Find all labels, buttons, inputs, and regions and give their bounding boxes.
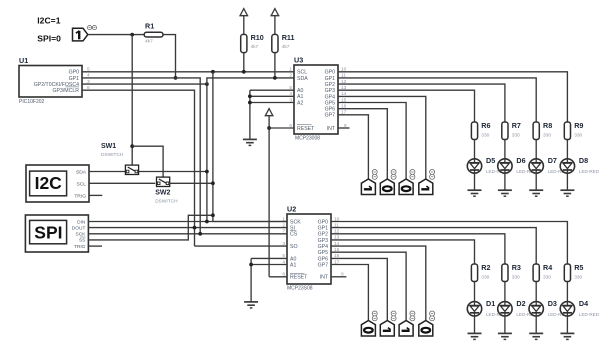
svg-text:D1: D1 xyxy=(486,299,495,308)
wire DOUT-SI row xyxy=(88,227,287,229)
resistor R3 xyxy=(502,263,521,281)
wire U3 RESET xyxy=(269,127,294,129)
ground U3 addr xyxy=(243,139,257,145)
svg-text:SW2: SW2 xyxy=(155,190,170,197)
wire R6 to D5 xyxy=(474,140,476,159)
svg-text:330: 330 xyxy=(543,275,551,281)
svg-text:TRIG: TRIG xyxy=(74,194,86,200)
wire I2C SCL to SW2 xyxy=(89,182,155,184)
svg-text:A1: A1 xyxy=(290,262,296,268)
node junction R11-SDA xyxy=(273,76,277,80)
svg-text:4k7: 4k7 xyxy=(145,38,153,44)
svg-text:1: 1 xyxy=(282,216,285,222)
node junction GP2-SDA xyxy=(205,82,209,86)
ground D2 xyxy=(498,333,512,339)
wire R9 to D8 xyxy=(566,140,568,159)
wire U3 GP6 to tag xyxy=(338,109,387,179)
wire R5 to D4 xyxy=(566,282,568,302)
svg-text:GP7: GP7 xyxy=(325,113,335,119)
wire U2 GP7 to tag xyxy=(331,265,368,321)
note I2C=1 xyxy=(37,15,60,25)
wire GP2 row xyxy=(82,83,207,85)
jumper tag value 1 xyxy=(73,26,97,41)
svg-text:4k7: 4k7 xyxy=(251,44,259,50)
svg-text:330: 330 xyxy=(481,133,489,139)
svg-text:R8: R8 xyxy=(543,121,552,130)
node junction SCL-vD xyxy=(211,70,215,74)
svg-text:330: 330 xyxy=(512,133,520,139)
wire SW2 to SCL vertical xyxy=(169,182,213,184)
svg-text:GP3: GP3 xyxy=(325,88,335,94)
wire I2C SDA to SW1 xyxy=(89,171,125,173)
IC U3 MCP23008 xyxy=(294,55,338,141)
svg-text:MCP23008: MCP23008 xyxy=(295,136,320,142)
wire VCC vertical xyxy=(268,116,270,277)
svg-text:INT: INT xyxy=(327,126,336,132)
switch SW1 DSWITCH xyxy=(101,143,139,175)
wire GP3 row xyxy=(82,90,195,246)
wire SCK-CS row xyxy=(88,233,287,235)
node junction U2 A1 xyxy=(249,263,253,267)
wire U2 GP1 to R4 xyxy=(331,228,536,264)
wire U3 INT stub xyxy=(338,127,350,129)
LED D3 LED-RED xyxy=(529,299,569,317)
wire R4 to D3 xyxy=(535,282,537,302)
svg-text:A2: A2 xyxy=(297,100,303,106)
LED D8 LED-RED xyxy=(560,156,600,174)
svg-text:DSWITCH: DSWITCH xyxy=(155,199,178,205)
IC U1 PIC10F202 xyxy=(19,56,82,105)
svg-text:R4: R4 xyxy=(543,263,552,272)
wire SW1 to SDA vertical xyxy=(139,171,207,173)
connector SPI box xyxy=(25,215,88,252)
wire U3 GP7 to tag xyxy=(338,115,368,179)
svg-text:DOUT: DOUT xyxy=(72,225,86,231)
jumper tag U2 GP6 value 1 xyxy=(380,311,396,336)
svg-text:D5: D5 xyxy=(486,156,495,165)
svg-text:U1: U1 xyxy=(19,56,28,65)
wire U3 A0 xyxy=(250,89,294,91)
ground D4 xyxy=(560,333,574,339)
pin numbers U1 xyxy=(87,67,90,91)
connector I2C box xyxy=(26,165,89,202)
wire GP1 row xyxy=(82,78,200,234)
resistor R4 xyxy=(533,263,552,281)
LED D7 LED-RED xyxy=(529,156,569,174)
svg-text:GP1: GP1 xyxy=(69,76,79,82)
wire U2 A0 xyxy=(251,257,287,259)
svg-text:R3: R3 xyxy=(512,263,521,272)
svg-text:D4: D4 xyxy=(579,299,588,308)
svg-text:SCK: SCK xyxy=(76,232,87,238)
wire U3 GP0 to R9 xyxy=(338,72,567,122)
jumper tag U3 GP4 value 1 xyxy=(419,170,435,195)
svg-text:SCL: SCL xyxy=(76,181,86,187)
wire U2 GP0 to R5 xyxy=(331,222,567,265)
wire DIN row xyxy=(88,221,287,223)
svg-text:D8: D8 xyxy=(579,156,588,165)
note SPI=0 xyxy=(37,34,61,44)
svg-text:GP0: GP0 xyxy=(69,70,79,76)
wire D2 to ground xyxy=(504,316,506,333)
jumper tag U3 GP7 value 1 xyxy=(361,170,377,195)
wire R3 to D2 xyxy=(504,282,506,302)
svg-text:I2C: I2C xyxy=(35,173,63,193)
wire R7 to D6 xyxy=(504,140,506,159)
pin numbers U2 xyxy=(282,216,344,277)
resistor R1 xyxy=(144,21,163,44)
wire U2 RESET xyxy=(269,276,287,278)
wire R10 to SCL xyxy=(243,53,245,72)
wire U2 GP6 to tag xyxy=(331,258,387,320)
LED D2 LED-RED xyxy=(498,299,538,317)
jumper tag U3 GP6 value 0 xyxy=(380,170,396,195)
wire U3 addr vertical xyxy=(249,90,251,139)
wire D5 to ground xyxy=(474,173,476,190)
svg-text:GP4: GP4 xyxy=(318,244,328,250)
LED D6 LED-RED xyxy=(498,156,538,174)
svg-text:330: 330 xyxy=(574,275,582,281)
svg-text:TRIG: TRIG xyxy=(74,244,86,250)
svg-text:D7: D7 xyxy=(548,156,557,165)
svg-text:330: 330 xyxy=(481,275,489,281)
resistor R10 xyxy=(241,33,264,52)
svg-text:A0: A0 xyxy=(290,256,296,262)
svg-text:I2C=1: I2C=1 xyxy=(37,15,60,25)
node junction U3 RESET xyxy=(267,126,271,130)
node junction SW1-SDA xyxy=(205,170,209,174)
wire U2 A1 xyxy=(251,264,287,266)
wire D6 to ground xyxy=(504,173,506,190)
node junction DIN-SDA xyxy=(205,220,209,224)
svg-text:R5: R5 xyxy=(574,263,583,272)
wire GP0-SCL row xyxy=(82,71,294,73)
power flag VCC R10 xyxy=(240,9,249,35)
wire U2 GP5 to tag xyxy=(331,252,406,320)
svg-text:DSWITCH: DSWITCH xyxy=(101,152,124,158)
pin numbers U3 xyxy=(289,67,347,129)
jumper tag U2 GP7 value 0 xyxy=(361,311,377,336)
wire D4 to ground xyxy=(566,316,568,333)
svg-text:R1: R1 xyxy=(145,21,154,30)
svg-text:2: 2 xyxy=(289,73,292,79)
svg-text:PIC10F202: PIC10F202 xyxy=(19,99,45,105)
wire U3 GP1 to R8 xyxy=(338,78,536,122)
wire R2 to D1 xyxy=(474,282,476,302)
svg-text:R10: R10 xyxy=(251,33,264,42)
svg-text:GP3/MCLR: GP3/MCLR xyxy=(52,88,79,94)
wire U3 GP5 to tag xyxy=(338,103,406,180)
wire U2 INT stub xyxy=(331,276,346,278)
svg-text:GP2: GP2 xyxy=(318,232,328,238)
svg-text:DIN: DIN xyxy=(77,219,86,225)
svg-text:U2: U2 xyxy=(287,204,296,213)
wire SO row xyxy=(195,245,288,247)
resistor R6 xyxy=(471,121,490,139)
svg-text:GP5: GP5 xyxy=(318,250,328,256)
wire U2 addr vertical xyxy=(250,258,252,302)
wire SCL vertical xyxy=(213,72,287,222)
wire D8 to ground xyxy=(566,173,568,190)
svg-text:3: 3 xyxy=(282,241,285,247)
wire SDA vertical xyxy=(206,84,208,221)
wire D1 to ground xyxy=(474,316,476,333)
svg-text:GP6: GP6 xyxy=(325,107,335,113)
LED D1 LED-RED xyxy=(467,299,507,317)
wire U3 GP3 to R6 xyxy=(338,90,475,122)
svg-text:GP3: GP3 xyxy=(318,238,328,244)
node junction DOUT-GP3 xyxy=(193,226,197,230)
node junction SW2-SCL xyxy=(211,181,215,185)
node junction SW branch xyxy=(130,144,134,148)
svg-text:330: 330 xyxy=(512,275,520,281)
svg-text:RESET: RESET xyxy=(297,126,315,132)
wire R1 to SDA net xyxy=(163,35,176,78)
wire branch to SW2 xyxy=(132,146,163,178)
resistor R11 xyxy=(272,33,295,52)
svg-text:GP0: GP0 xyxy=(318,219,328,225)
ground D6 xyxy=(498,190,512,196)
node junction SCK-GP1 xyxy=(198,232,202,236)
wire R11 to SDA xyxy=(274,53,276,78)
ground D1 xyxy=(468,333,482,339)
svg-text:SDA: SDA xyxy=(297,76,308,82)
wire SS row xyxy=(88,215,212,240)
svg-text:GP1: GP1 xyxy=(325,76,335,82)
node junction R10-SCL xyxy=(242,70,246,74)
switch SW2 DSWITCH xyxy=(155,177,178,205)
svg-text:6: 6 xyxy=(282,272,285,278)
svg-text:R7: R7 xyxy=(512,121,521,130)
wire U3 GP2 to R7 xyxy=(338,84,505,122)
resistor R2 xyxy=(471,263,490,281)
svg-text:GP1: GP1 xyxy=(318,226,328,232)
svg-text:1: 1 xyxy=(289,67,292,73)
svg-text:R2: R2 xyxy=(481,263,490,272)
svg-text:INT: INT xyxy=(320,275,329,281)
wire U2 GP4 to tag xyxy=(331,246,426,320)
LED D5 LED-RED xyxy=(467,156,507,174)
wire R8 to D7 xyxy=(535,140,537,159)
wire tag to R1 xyxy=(88,34,144,36)
wire U2 GP2 to R3 xyxy=(331,234,505,264)
svg-text:D3: D3 xyxy=(548,299,557,308)
svg-text:GP2: GP2 xyxy=(325,82,335,88)
svg-text:LED-RED: LED-RED xyxy=(579,312,600,317)
svg-text:LED-RED: LED-RED xyxy=(579,169,600,174)
svg-text:U3: U3 xyxy=(294,55,303,64)
svg-text:4k7: 4k7 xyxy=(282,44,290,50)
svg-text:7: 7 xyxy=(282,229,285,235)
svg-text:A1: A1 xyxy=(297,94,303,100)
wire SPI TRIG stub xyxy=(88,245,102,247)
svg-text:GP7: GP7 xyxy=(318,262,328,268)
jumper tag U2 GP4 value 0 xyxy=(419,311,435,336)
svg-text:SCL: SCL xyxy=(297,70,307,76)
power flag VCC RESET xyxy=(265,109,274,116)
power flag VCC R11 xyxy=(271,9,280,35)
wire U3 GP4 to tag xyxy=(338,96,426,179)
ground D3 xyxy=(529,333,543,339)
svg-text:R11: R11 xyxy=(282,33,295,42)
svg-text:SS: SS xyxy=(79,238,85,244)
wire U3 A2 xyxy=(250,102,294,104)
svg-text:SW1: SW1 xyxy=(101,143,116,150)
node junction A1 xyxy=(248,94,252,98)
LED D4 LED-RED xyxy=(560,299,600,317)
wire D3 to ground xyxy=(535,316,537,333)
jumper tag U3 GP5 value 0 xyxy=(399,170,415,195)
wire U3 A1 xyxy=(250,95,294,97)
svg-text:R9: R9 xyxy=(574,121,583,130)
resistor R9 xyxy=(564,121,583,139)
svg-text:RESET: RESET xyxy=(290,275,308,281)
svg-text:MCP23S08: MCP23S08 xyxy=(287,286,313,292)
svg-text:2: 2 xyxy=(282,222,285,228)
svg-text:GP5: GP5 xyxy=(325,100,335,106)
svg-text:SO: SO xyxy=(290,244,298,250)
wire R1 junction to SW1 xyxy=(131,35,133,166)
svg-text:SCK: SCK xyxy=(290,219,301,225)
jumper tag U2 GP5 value 1 xyxy=(399,311,415,336)
svg-text:GP0: GP0 xyxy=(325,70,335,76)
resistor R5 xyxy=(564,263,583,281)
svg-text:330: 330 xyxy=(543,133,551,139)
node junction R1 left xyxy=(130,33,134,37)
svg-text:SPI: SPI xyxy=(34,222,62,242)
svg-text:GP6: GP6 xyxy=(318,256,328,262)
resistor R8 xyxy=(533,121,552,139)
IC U2 MCP23S08 xyxy=(287,204,331,291)
ground U2 addr xyxy=(244,302,258,308)
resistor R7 xyxy=(502,121,521,139)
svg-text:A0: A0 xyxy=(297,88,303,94)
wire SDA net xyxy=(207,78,294,84)
svg-text:D2: D2 xyxy=(516,299,525,308)
node junction R1-SDA xyxy=(174,76,178,80)
svg-text:GP4: GP4 xyxy=(325,94,335,100)
svg-text:R6: R6 xyxy=(481,121,490,130)
svg-text:330: 330 xyxy=(574,133,582,139)
svg-text:SPI=0: SPI=0 xyxy=(37,34,61,44)
node junction SS-SCL xyxy=(211,213,215,217)
wire D7 to ground xyxy=(535,173,537,190)
svg-text:D6: D6 xyxy=(516,156,525,165)
ground D5 xyxy=(468,190,482,196)
svg-text:SDA: SDA xyxy=(76,170,87,176)
svg-text:CS: CS xyxy=(290,232,298,238)
wire I2C TRIG stub xyxy=(89,194,102,196)
ground D8 xyxy=(560,190,574,196)
wire U2 GP3 to R2 xyxy=(331,240,475,264)
ground D7 xyxy=(529,190,543,196)
node junction A2 xyxy=(248,101,252,105)
